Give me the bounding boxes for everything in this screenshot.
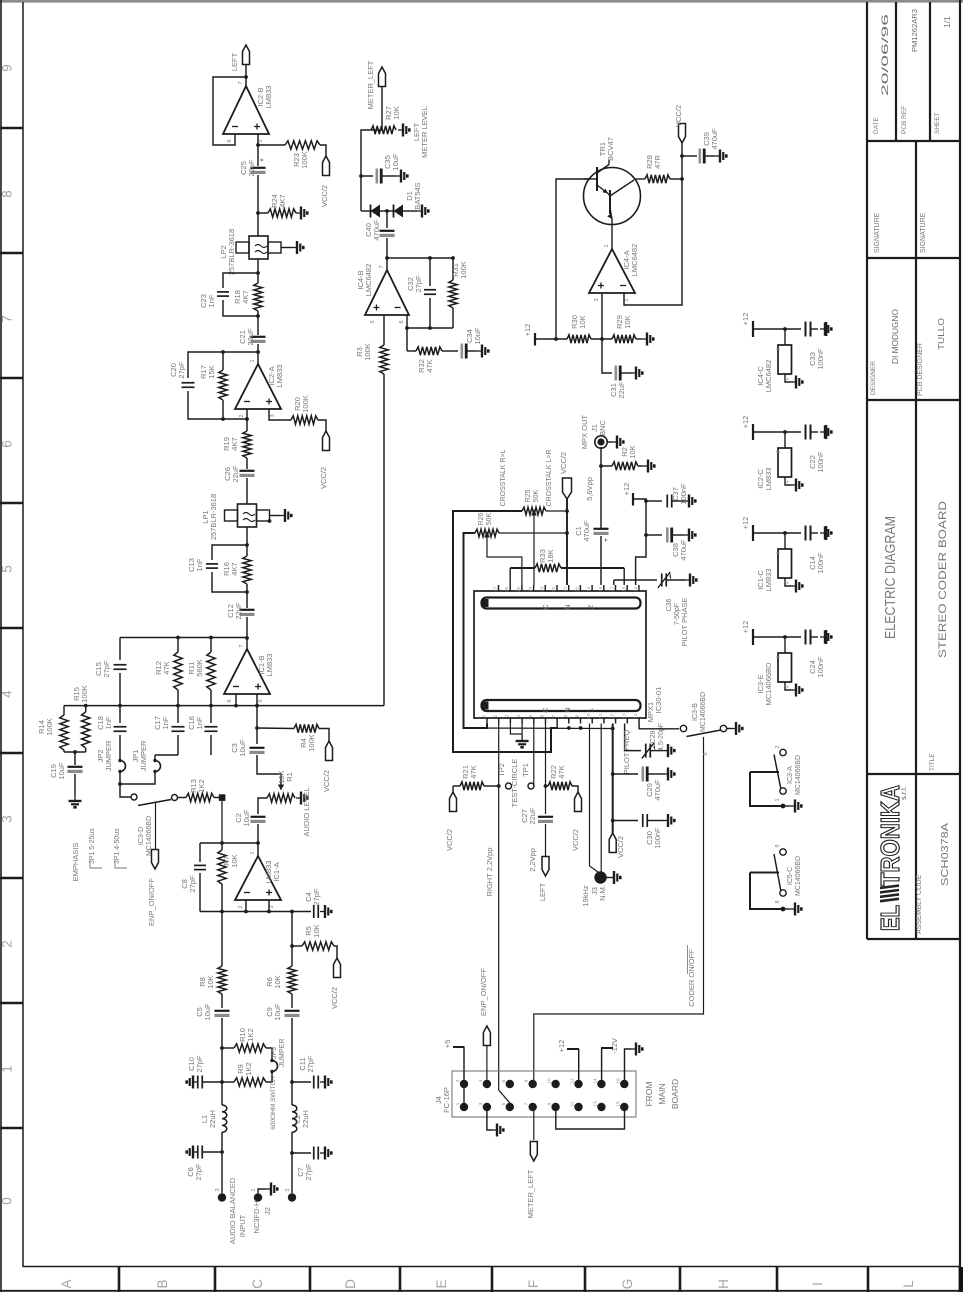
svg-text:8: 8 bbox=[524, 1079, 530, 1082]
wire bbox=[753, 328, 801, 330]
wire feedback bus top bbox=[120, 637, 247, 639]
ground bbox=[403, 210, 417, 212]
resistor R12 bbox=[177, 638, 179, 653]
svg-text:1: 1 bbox=[455, 1102, 461, 1105]
wire bbox=[246, 458, 248, 469]
node junction bbox=[256, 211, 260, 215]
ground bbox=[69, 796, 82, 807]
capacitor C35 bbox=[361, 175, 373, 177]
node junction bbox=[385, 256, 389, 260]
svg-text:2: 2 bbox=[0, 940, 15, 948]
ground pad 16 bbox=[625, 1049, 632, 1084]
svg-text:13: 13 bbox=[592, 1101, 598, 1107]
diode D1-B bbox=[394, 205, 404, 218]
svg-text:10K: 10K bbox=[312, 924, 321, 937]
capacitor C10 bbox=[197, 1076, 199, 1089]
svg-text:20: 20 bbox=[574, 586, 579, 592]
svg-text:1: 1 bbox=[775, 798, 781, 801]
connector J4 pad 16 bbox=[620, 1080, 628, 1088]
wire bbox=[386, 238, 388, 258]
resistor R7 bbox=[221, 843, 223, 850]
wire bbox=[214, 797, 219, 799]
svg-text:s.r.l.: s.r.l. bbox=[899, 786, 908, 800]
ground bbox=[727, 728, 731, 730]
wire bbox=[600, 447, 602, 530]
ground under IC pins 3-4 bbox=[510, 724, 522, 735]
connector J4 pad 7 bbox=[529, 1103, 537, 1111]
svg-text:22uH: 22uH bbox=[301, 1110, 310, 1128]
svg-text:R1: R1 bbox=[285, 772, 294, 782]
wire bus under IC bbox=[464, 727, 613, 730]
resistor R21 bbox=[453, 785, 460, 787]
svg-text:ELECTRIC DIAGRAM: ELECTRIC DIAGRAM bbox=[883, 516, 899, 639]
wire bbox=[291, 1018, 293, 1082]
svg-text:ENP_ON/OFF: ENP_ON/OFF bbox=[479, 968, 488, 1016]
svg-text:MC14066BD: MC14066BD bbox=[795, 755, 802, 795]
IC IC1-C block bbox=[784, 533, 786, 549]
svg-text:22uF: 22uF bbox=[247, 159, 256, 177]
connector J4 pad 9 bbox=[551, 1103, 559, 1111]
svg-text:+12: +12 bbox=[741, 621, 750, 634]
node ENP_ON/OFF flag bbox=[152, 850, 159, 870]
capacitor C21 bbox=[251, 336, 266, 338]
ground bbox=[811, 328, 819, 330]
connector J2 pad 1 bbox=[254, 1193, 262, 1201]
svg-text:600OHM SWITCH: 600OHM SWITCH bbox=[270, 1076, 277, 1130]
svg-text:LMC6482: LMC6482 bbox=[364, 264, 373, 297]
capacitor C3 bbox=[250, 747, 265, 749]
connector J4 pad 4 bbox=[483, 1080, 491, 1088]
wire bbox=[682, 155, 697, 157]
svg-text:10uF: 10uF bbox=[242, 809, 251, 827]
svg-text:IC30-01: IC30-01 bbox=[654, 687, 663, 714]
svg-text:10: 10 bbox=[586, 713, 591, 719]
svg-text:22uF: 22uF bbox=[246, 328, 255, 346]
svg-text:DESIGNER: DESIGNER bbox=[870, 361, 877, 395]
capacitor C31 bbox=[614, 366, 617, 381]
ground bbox=[187, 1076, 198, 1089]
svg-text:50K: 50K bbox=[533, 489, 540, 502]
svg-text:13: 13 bbox=[621, 713, 626, 719]
svg-text:IC3-B: IC3-B bbox=[692, 703, 699, 721]
wire bbox=[318, 420, 326, 431]
svg-text:18K: 18K bbox=[546, 549, 555, 562]
switch IC3-D bbox=[131, 794, 137, 800]
svg-text:22uF: 22uF bbox=[231, 465, 240, 483]
svg-text:10K: 10K bbox=[628, 445, 637, 458]
capacitor C24 bbox=[805, 630, 807, 645]
ground bbox=[705, 155, 715, 157]
svg-text:26: 26 bbox=[504, 586, 509, 592]
svg-text:BOARD: BOARD bbox=[670, 1079, 680, 1109]
power VCC/2 flag bbox=[323, 431, 330, 451]
wire bbox=[245, 900, 247, 912]
svg-text:+12: +12 bbox=[741, 517, 750, 530]
node junction bbox=[554, 337, 558, 341]
wire bbox=[452, 786, 454, 792]
svg-text:PILOT PHASE: PILOT PHASE bbox=[680, 597, 689, 646]
wire bbox=[202, 1081, 222, 1083]
svg-text:2: 2 bbox=[285, 1188, 291, 1191]
svg-text:19kHz: 19kHz bbox=[581, 885, 590, 907]
svg-text:VCC/2: VCC/2 bbox=[322, 770, 331, 792]
wire C30 row bbox=[613, 820, 638, 822]
wire pin5 trunk bbox=[533, 724, 535, 787]
svg-text:G: G bbox=[620, 1279, 635, 1290]
svg-text:47K: 47K bbox=[425, 359, 434, 372]
svg-text:47K: 47K bbox=[162, 661, 171, 674]
wire bbox=[268, 900, 270, 912]
node junction bbox=[256, 271, 260, 275]
wire feedback IC2-B bbox=[213, 77, 246, 145]
test point TP2 bbox=[506, 783, 512, 789]
wire bbox=[246, 478, 248, 504]
svg-text:PCB DESIGNER: PCB DESIGNER bbox=[917, 343, 924, 396]
ground bbox=[607, 877, 610, 879]
svg-text:VCC/2: VCC/2 bbox=[571, 829, 580, 851]
ground bbox=[785, 477, 791, 485]
resistor R11 bbox=[210, 638, 212, 653]
wire bbox=[407, 327, 453, 329]
svg-text:JP1 4-50us: JP1 4-50us bbox=[114, 828, 121, 864]
node LEFT output flag bbox=[243, 45, 250, 65]
title block outline bbox=[866, 2, 868, 939]
wire bbox=[601, 465, 612, 467]
svg-text:IC5-C: IC5-C bbox=[787, 867, 794, 885]
svg-text:10K: 10K bbox=[273, 975, 282, 988]
svg-text:15: 15 bbox=[615, 1101, 621, 1107]
jumper JP2 bbox=[120, 761, 126, 772]
wire bbox=[291, 1132, 293, 1153]
svg-text:LMC6482: LMC6482 bbox=[764, 360, 773, 393]
svg-text:27pF: 27pF bbox=[312, 888, 321, 906]
svg-text:47R: 47R bbox=[653, 155, 662, 169]
ground bbox=[781, 907, 786, 912]
wire bbox=[188, 352, 258, 378]
svg-text:21: 21 bbox=[563, 586, 568, 592]
capacitor C16 bbox=[210, 706, 212, 723]
wire crosstalk loop A bbox=[453, 511, 557, 752]
svg-text:19: 19 bbox=[586, 586, 591, 592]
trim wiper R25 bbox=[531, 510, 537, 516]
wire bbox=[235, 694, 237, 706]
IC IC3-E block bbox=[784, 637, 786, 653]
capacitor C27 bbox=[545, 786, 547, 814]
svg-text:MC14066BD: MC14066BD bbox=[795, 856, 802, 896]
connector J4 pad 6 bbox=[506, 1080, 514, 1088]
title block date cell bbox=[895, 2, 897, 141]
wire bbox=[386, 211, 388, 228]
op-amp IC2-A bbox=[235, 364, 281, 409]
op-amp IC4-A bbox=[589, 249, 635, 293]
svg-text:4: 4 bbox=[478, 1079, 484, 1082]
svg-text:CODER ON/OFF: CODER ON/OFF bbox=[687, 949, 696, 1007]
svg-text:2: 2 bbox=[624, 298, 630, 301]
svg-text:1: 1 bbox=[251, 1188, 257, 1191]
capacitor C34 bbox=[442, 350, 458, 352]
power +5 bbox=[463, 1047, 465, 1084]
svg-text:15K: 15K bbox=[207, 365, 216, 378]
svg-text:1nF: 1nF bbox=[161, 716, 170, 729]
svg-text:5: 5 bbox=[0, 565, 15, 573]
svg-text:LM833: LM833 bbox=[764, 468, 773, 491]
ground bbox=[187, 1146, 198, 1159]
node junction bbox=[497, 784, 501, 788]
svg-text:N: N bbox=[563, 707, 572, 712]
svg-text:INPUT: INPUT bbox=[238, 1214, 247, 1237]
capacitor C18 bbox=[119, 706, 121, 723]
op-amp IC2-B bbox=[223, 86, 269, 134]
svg-text:TULLO: TULLO bbox=[936, 318, 946, 350]
svg-text:27pF: 27pF bbox=[304, 1163, 313, 1181]
wire bbox=[270, 515, 281, 517]
capacitor C19 bbox=[68, 766, 83, 768]
wire pad 8 coder line junction bbox=[533, 1080, 535, 1084]
wire bbox=[221, 1132, 223, 1152]
svg-text:8: 8 bbox=[776, 347, 782, 350]
wire feedback via R28 node bbox=[624, 179, 682, 305]
wire pin10 bbox=[590, 724, 599, 873]
node junction bbox=[220, 1080, 224, 1084]
node LEFT flag bbox=[542, 857, 549, 877]
wire bbox=[266, 1072, 272, 1082]
wire bbox=[753, 532, 801, 534]
svg-text:SIGNATURE: SIGNATURE bbox=[874, 212, 881, 253]
capacitor C6 bbox=[197, 1146, 199, 1159]
jumper JP1 bbox=[154, 755, 156, 760]
svg-text:JUMPER: JUMPER bbox=[104, 740, 113, 771]
node junction bbox=[385, 209, 389, 213]
test point TP1 bbox=[528, 783, 534, 789]
wire bbox=[334, 946, 337, 958]
connector J4 pad 1 bbox=[460, 1103, 468, 1111]
wire bbox=[120, 772, 131, 798]
svg-text:257BLR-3618: 257BLR-3618 bbox=[227, 229, 236, 275]
resistor R5 bbox=[292, 945, 302, 947]
wire bbox=[245, 65, 247, 87]
svg-text:2: 2 bbox=[455, 1079, 461, 1082]
svg-text:AUDIO LEVEL: AUDIO LEVEL bbox=[302, 787, 311, 836]
svg-text:1K2: 1K2 bbox=[246, 1028, 255, 1041]
svg-text:12: 12 bbox=[570, 1078, 576, 1084]
wire pin14 to IC3-B bbox=[639, 724, 679, 729]
svg-text:10K: 10K bbox=[578, 315, 587, 328]
ground bbox=[672, 500, 684, 502]
svg-text:4: 4 bbox=[785, 581, 791, 584]
IC MPX1 top pins bbox=[498, 585, 500, 591]
power VCC/2 flag bbox=[323, 156, 330, 176]
svg-text:24: 24 bbox=[528, 586, 533, 592]
resistor R17 bbox=[219, 370, 227, 400]
svg-text:10K: 10K bbox=[623, 315, 632, 328]
capacitor C33 bbox=[805, 322, 807, 337]
wire bbox=[222, 400, 224, 419]
svg-text:1: 1 bbox=[604, 244, 610, 247]
svg-text:23: 23 bbox=[539, 586, 544, 592]
svg-text:VCC/2: VCC/2 bbox=[674, 105, 683, 127]
svg-text:100nF: 100nF bbox=[816, 552, 825, 574]
svg-text:22: 22 bbox=[551, 586, 556, 592]
ground bbox=[811, 431, 819, 433]
svg-text:SIGNATURE: SIGNATURE bbox=[920, 212, 927, 253]
IC MPX1 bottom pins bbox=[486, 718, 488, 724]
svg-text:C28: C28 bbox=[650, 730, 657, 743]
power +12 tick IC3-E bbox=[752, 629, 754, 645]
svg-text:JP1 5-25us: JP1 5-25us bbox=[89, 828, 96, 864]
wire bbox=[257, 145, 259, 166]
resistor R26 trimmer bbox=[475, 529, 499, 537]
IC IC4-C block bbox=[784, 329, 786, 345]
svg-text:EL: EL bbox=[875, 905, 905, 931]
ground bbox=[666, 579, 685, 581]
svg-text:5: 5 bbox=[258, 139, 264, 142]
svg-text:8: 8 bbox=[0, 190, 15, 198]
border frame bbox=[0, 0, 963, 3]
resistor R31 bbox=[452, 258, 454, 280]
resistor R6 bbox=[291, 946, 293, 966]
svg-text:VCC/2: VCC/2 bbox=[320, 185, 329, 207]
power VCC/2 flag bbox=[334, 958, 341, 978]
resistor R29 bbox=[612, 335, 636, 343]
svg-text:TEST-CIRCLE: TEST-CIRCLE bbox=[510, 759, 519, 808]
svg-text:1: 1 bbox=[586, 708, 595, 712]
power VCC/2 flag bbox=[679, 124, 686, 144]
svg-text:1K2: 1K2 bbox=[197, 779, 206, 792]
wire bbox=[246, 584, 248, 608]
resistor R33 bbox=[509, 568, 511, 585]
ground bbox=[621, 372, 631, 374]
wire bbox=[406, 315, 408, 328]
svg-text:100nF: 100nF bbox=[816, 656, 825, 678]
svg-text:8: 8 bbox=[776, 655, 782, 658]
svg-text:3: 3 bbox=[215, 1188, 221, 1191]
svg-text:6: 6 bbox=[0, 440, 15, 448]
capacitor C38 bbox=[646, 534, 662, 536]
power +12 at J4 bbox=[578, 1049, 580, 1084]
svg-text:TITLE: TITLE bbox=[929, 753, 936, 771]
node junction bbox=[256, 143, 260, 147]
svg-text:4K7: 4K7 bbox=[230, 562, 239, 575]
capacitor C13 bbox=[206, 563, 218, 565]
svg-text:+: + bbox=[604, 538, 610, 542]
wire bbox=[670, 178, 682, 180]
svg-text:6: 6 bbox=[227, 699, 233, 702]
svg-text:MAIN: MAIN bbox=[657, 1083, 667, 1104]
resistor R9 bbox=[222, 1081, 234, 1083]
capacitor C37 bbox=[646, 500, 662, 502]
svg-text:7: 7 bbox=[238, 81, 244, 84]
capacitor C12 bbox=[240, 609, 255, 611]
wire bbox=[572, 786, 578, 792]
svg-text:9: 9 bbox=[775, 844, 781, 847]
wire bbox=[600, 536, 602, 585]
switch IC5-C bbox=[780, 849, 786, 855]
wire pads 9-15 bus bbox=[556, 1107, 625, 1129]
wire pin12 trunk bbox=[612, 724, 614, 834]
wire bbox=[257, 727, 294, 730]
svg-text:100K: 100K bbox=[80, 685, 89, 703]
resistor R15 bbox=[85, 706, 87, 712]
svg-text:NC3FD-H: NC3FD-H bbox=[252, 1201, 261, 1234]
switch IC3-A bbox=[780, 749, 786, 755]
connector J4 pad 8 bbox=[529, 1080, 537, 1088]
power VCC/2 flag bbox=[326, 741, 333, 761]
svg-text:MC14066BD: MC14066BD bbox=[764, 662, 773, 706]
capacitor C14 bbox=[805, 526, 807, 541]
svg-text:20/06/96: 20/06/96 bbox=[880, 14, 891, 96]
node junction bbox=[256, 350, 260, 354]
svg-text:+12: +12 bbox=[523, 324, 532, 337]
capacitor C17 bbox=[177, 706, 179, 723]
resistor R13 bbox=[178, 797, 187, 799]
wire bbox=[381, 87, 383, 131]
svg-text:BNC: BNC bbox=[598, 420, 607, 436]
wire bbox=[200, 842, 258, 844]
svg-text:SHEET: SHEET bbox=[934, 112, 941, 134]
capacitor C15 bbox=[119, 638, 121, 661]
capacitor C36 trimmer bbox=[613, 580, 615, 585]
svg-text:8: 8 bbox=[775, 900, 781, 903]
wire bbox=[291, 912, 293, 947]
svg-text:25: 25 bbox=[516, 586, 521, 592]
svg-text:IC1-A: IC1-A bbox=[272, 862, 281, 881]
svg-text:27pF: 27pF bbox=[102, 660, 111, 678]
wire R3 to audio bus bbox=[383, 374, 385, 706]
svg-text:STEREO CODER BOARD: STEREO CODER BOARD bbox=[937, 501, 949, 658]
wire bbox=[633, 499, 646, 585]
svg-text:BCV47: BCV47 bbox=[606, 137, 615, 161]
svg-text:9: 9 bbox=[547, 1102, 553, 1105]
svg-text:VCC/2: VCC/2 bbox=[559, 452, 568, 474]
ground bbox=[781, 804, 786, 809]
IC IC2-C block bbox=[784, 432, 786, 448]
connector J4 pad 2 bbox=[460, 1080, 468, 1088]
power +12 tick IC2-C bbox=[752, 424, 754, 440]
power +12 tick bbox=[534, 333, 536, 346]
resistor R25 trimmer bbox=[522, 507, 546, 515]
wire bbox=[753, 636, 801, 638]
svg-text:2,2Vpp: 2,2Vpp bbox=[528, 848, 537, 872]
svg-text:BAT54S: BAT54S bbox=[413, 182, 422, 209]
wire bbox=[753, 431, 801, 433]
svg-text:TP1: TP1 bbox=[521, 763, 530, 777]
connector J4 pad 15 bbox=[620, 1103, 628, 1111]
jumper JP3 bbox=[272, 1061, 278, 1072]
svg-text:H: H bbox=[716, 1279, 731, 1289]
connector J3 19kHz bbox=[594, 871, 606, 883]
op-amp IC4-B bbox=[386, 258, 388, 270]
svg-text:VCC/2: VCC/2 bbox=[319, 467, 328, 489]
wire pin1 loop bbox=[486, 724, 488, 729]
svg-text:1: 1 bbox=[250, 359, 256, 362]
resistor R20 bbox=[291, 416, 318, 424]
wire bbox=[257, 824, 259, 856]
wire bbox=[212, 545, 247, 560]
svg-text:VCC/2: VCC/2 bbox=[445, 829, 454, 851]
svg-text:2: 2 bbox=[775, 745, 781, 748]
svg-text:27pF: 27pF bbox=[177, 361, 186, 379]
wire bbox=[258, 212, 268, 214]
wire pads 1-2 bbox=[463, 1084, 465, 1107]
svg-text:4: 4 bbox=[0, 690, 15, 698]
node junction bbox=[599, 464, 603, 468]
svg-text:100K: 100K bbox=[307, 734, 316, 752]
svg-text:3: 3 bbox=[0, 815, 15, 823]
svg-text:ENP_ON/OFF: ENP_ON/OFF bbox=[147, 878, 156, 926]
wire bbox=[535, 338, 567, 340]
wire bbox=[74, 752, 76, 765]
wire bbox=[681, 143, 683, 179]
